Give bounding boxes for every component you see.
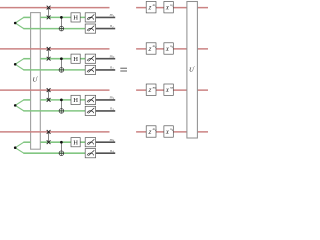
swap gate SW1 (q1 x a1): [47, 6, 51, 20]
CNOT CX3 target on b3: [59, 109, 64, 114]
CNOT CX4 target on b4: [59, 151, 64, 156]
Hadamard H1 on a1: [71, 13, 80, 22]
meter M1a measurement on a1: [85, 13, 95, 22]
Hadamard H2 on a2: [71, 54, 80, 63]
classical wire n1: [96, 23, 116, 29]
correction gate Z^m4: [146, 126, 157, 137]
equals sign: [120, 68, 127, 71]
qubit wire q1out (red, right): [136, 7, 208, 9]
correction gate X^n1: [164, 1, 174, 12]
wire: Bell half a4 (green, through U): [23, 141, 85, 143]
svg-text:H: H: [73, 15, 78, 22]
qubit wire q2 (red, input): [0, 48, 110, 50]
Bell pair bracket B2: [14, 59, 24, 70]
unitary U (left, multi-qubit box): [31, 13, 41, 150]
CNOT CX1 control on a1: [60, 16, 63, 31]
svg-text:m1: m1: [153, 3, 157, 8]
classical wire n3: [96, 106, 116, 112]
Bell pair bracket B4: [14, 142, 24, 153]
Bell pair bracket B3: [14, 100, 24, 111]
svg-text:Z: Z: [148, 6, 151, 12]
Bell pair bracket B1: [14, 17, 24, 28]
svg-text:Z: Z: [148, 47, 151, 53]
svg-text:m3: m3: [153, 85, 157, 90]
classical wire m4: [96, 137, 116, 143]
qubit wire q4 (red, input): [0, 131, 110, 133]
qubit wire q2out (red, right): [136, 48, 208, 50]
classical wire n4: [96, 148, 116, 154]
CNOT CX4 control on a4: [60, 141, 63, 156]
wire: Bell half b2 (green): [23, 69, 85, 71]
wire: Bell half b3 (green): [23, 110, 85, 112]
meter M2a measurement on a2: [85, 54, 95, 63]
meter M3b measurement on b3: [85, 106, 95, 115]
Hadamard H4 on a4: [71, 138, 80, 147]
wire: Bell half b1 (green): [23, 28, 85, 30]
svg-text:m2: m2: [153, 44, 157, 49]
svg-text:H: H: [73, 97, 78, 104]
CNOT CX1 target on b1: [59, 26, 64, 31]
correction gate X^n2: [164, 43, 174, 54]
classical wire m3: [96, 95, 116, 101]
classical wire n2: [96, 65, 116, 71]
correction gate X^n4: [164, 126, 174, 137]
unitary U (right, multi-qubit box): [187, 2, 198, 139]
svg-text:Z: Z: [148, 130, 151, 136]
classical wire m1: [96, 12, 116, 18]
CNOT CX2 target on b2: [59, 68, 64, 73]
meter M1b measurement on b1: [85, 24, 95, 33]
Hadamard H3 on a3: [71, 95, 80, 104]
wire: Bell half a2 (green, through U): [23, 58, 85, 60]
swap gate SW4 (q4 x a4): [47, 130, 51, 144]
CNOT CX3 control on a3: [60, 99, 63, 114]
wire: Bell half a3 (green, through U): [23, 99, 85, 101]
qubit wire q3out (red, right): [136, 89, 208, 91]
qubit wire q3 (red, input): [0, 89, 110, 91]
svg-text:H: H: [73, 56, 78, 63]
wire: Bell half a1 (green, through U): [23, 16, 85, 18]
correction gate X^n3: [164, 84, 174, 95]
swap gate SW3 (q3 x a3): [47, 88, 51, 102]
CNOT CX2 control on a2: [60, 57, 63, 72]
svg-text:Z: Z: [148, 88, 151, 94]
svg-text:H: H: [73, 139, 78, 146]
swap gate SW2 (q2 x a2): [47, 47, 51, 61]
correction gate Z^m2: [146, 43, 157, 54]
wire: Bell half b4 (green): [23, 152, 85, 154]
meter M3a measurement on a3: [85, 95, 95, 104]
classical wire m2: [96, 53, 116, 59]
qubit wire q1 (red, input): [0, 7, 110, 9]
correction gate Z^m1: [146, 1, 157, 12]
qubit wire q4out (red, right): [136, 131, 208, 133]
meter M4a measurement on a4: [85, 138, 95, 147]
correction gate Z^m3: [146, 84, 157, 95]
meter M2b measurement on b2: [85, 65, 95, 74]
svg-text:m4: m4: [153, 127, 157, 132]
meter M4b measurement on b4: [85, 149, 95, 158]
